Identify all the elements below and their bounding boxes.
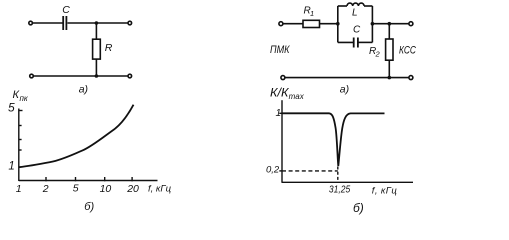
svg-text:1: 1 <box>310 9 314 18</box>
svg-text:а): а) <box>340 83 349 95</box>
svg-text:5: 5 <box>8 101 15 115</box>
svg-text:20: 20 <box>126 183 139 195</box>
svg-text:а): а) <box>79 83 88 95</box>
svg-text:б): б) <box>353 201 364 215</box>
svg-text:10: 10 <box>100 183 112 195</box>
svg-text:R: R <box>105 42 113 54</box>
svg-text:К: К <box>13 89 20 101</box>
svg-text:31,25: 31,25 <box>329 185 351 196</box>
svg-text:0,2: 0,2 <box>266 165 280 176</box>
svg-text:L: L <box>352 8 358 19</box>
svg-text:2: 2 <box>42 183 49 195</box>
svg-text:пк: пк <box>20 94 29 103</box>
svg-text:f, кГц: f, кГц <box>372 185 398 196</box>
svg-text:К/К: К/К <box>270 85 289 99</box>
svg-text:5: 5 <box>73 183 79 195</box>
svg-text:C: C <box>353 25 361 36</box>
svg-text:2: 2 <box>375 50 381 59</box>
svg-text:max: max <box>289 92 305 101</box>
svg-text:1: 1 <box>16 183 22 195</box>
svg-text:ПМК: ПМК <box>270 44 290 56</box>
svg-text:1: 1 <box>276 108 282 119</box>
svg-text:б): б) <box>84 201 94 213</box>
svg-text:КСС: КСС <box>399 45 417 57</box>
svg-text:C: C <box>62 4 70 16</box>
svg-text:1: 1 <box>8 161 14 173</box>
svg-text:f, кГц: f, кГц <box>148 184 172 195</box>
